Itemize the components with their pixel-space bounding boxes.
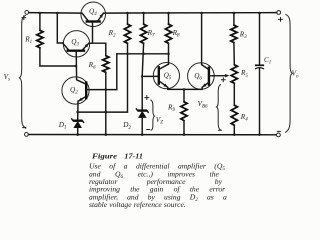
wire top rail output side: [103, 12, 276, 15]
junction node (57.3,13): [56, 12, 59, 15]
junction node (233.9,13): [233, 12, 236, 15]
node input - terminal: [25, 133, 29, 137]
wire D1 node horizontal: [78, 54, 128, 112]
node Vs bracket: [20, 15, 27, 128]
node output - terminal: [277, 133, 281, 137]
junction node (184,89.4): [183, 88, 186, 91]
junction node (234.3,134.6): [233, 133, 236, 136]
transistor Q2: [62, 77, 89, 104]
zener diode D1: [73, 119, 82, 121]
junction node (127.5,53.8): [126, 53, 129, 56]
wire bottom rail: [28, 134, 276, 136]
node Vz bracket: [150, 100, 154, 131]
junction node (142.2,134.6): [141, 133, 144, 136]
resistor R3: [233, 13, 235, 25]
wire Q5/Q6 emitters: [168, 88, 202, 90]
resistor R4: [233, 83, 235, 105]
node Vo bracket: [285, 14, 292, 132]
potentiometer R5: [231, 65, 237, 83]
svg-text:Figure: Figure: [92, 152, 118, 161]
junction node (127.5,13): [126, 12, 129, 15]
junction node (77.7,112.1): [76, 111, 79, 114]
junction node (105.8,89.6): [105, 88, 108, 91]
resistor R9: [183, 89, 185, 101]
svg-text:17-11: 17-11: [124, 152, 143, 161]
junction node (77.7,134.6): [76, 133, 79, 136]
resistor R8: [168, 13, 170, 24]
junction node (168.5,53.8): [167, 53, 170, 56]
transistor Q3: [63, 31, 89, 57]
capacitor C1: [259, 13, 261, 65]
wire top rail input side: [29, 12, 82, 15]
junction node (39.9,13): [39, 12, 42, 15]
junction node (259.5,13): [258, 12, 261, 15]
node input + terminal: [25, 11, 29, 15]
resistor R1: [39, 13, 41, 30]
wire Q3 emitter / Q4 base to R6: [89, 43, 106, 56]
resistor R2: [127, 13, 129, 24]
junction node (143.6,53.8): [142, 53, 145, 56]
junction node (105.8,112.1): [105, 111, 108, 114]
wire Q3 collector to rail: [57, 13, 62, 43]
transistor Q5: [153, 63, 179, 89]
junction node (75.9,66): [75, 65, 78, 68]
resistor R7: [143, 13, 145, 24]
junction node (184,134.6): [183, 133, 186, 136]
transistor Q6: [188, 63, 215, 90]
junction node (142.2,76.4): [141, 75, 144, 78]
wire Q2 base node: [86, 54, 117, 90]
junction node (259.5,134.6): [258, 133, 261, 136]
junction node (168.5,13): [167, 12, 170, 15]
svg-text:stable voltage reference sourc: stable voltage reference source.: [89, 200, 186, 209]
node output + terminal: [277, 11, 281, 15]
junction node (143.6,13): [142, 12, 145, 15]
zener diode D2: [141, 76, 143, 110]
junction node (201.6,13): [200, 12, 203, 15]
resistor R6: [103, 56, 109, 73]
transistor Q4: [81, 2, 106, 27]
junction node (105.8,134.6): [105, 133, 108, 136]
node VB6 bracket: [217, 84, 221, 130]
wire error node horizontal: [117, 53, 169, 55]
